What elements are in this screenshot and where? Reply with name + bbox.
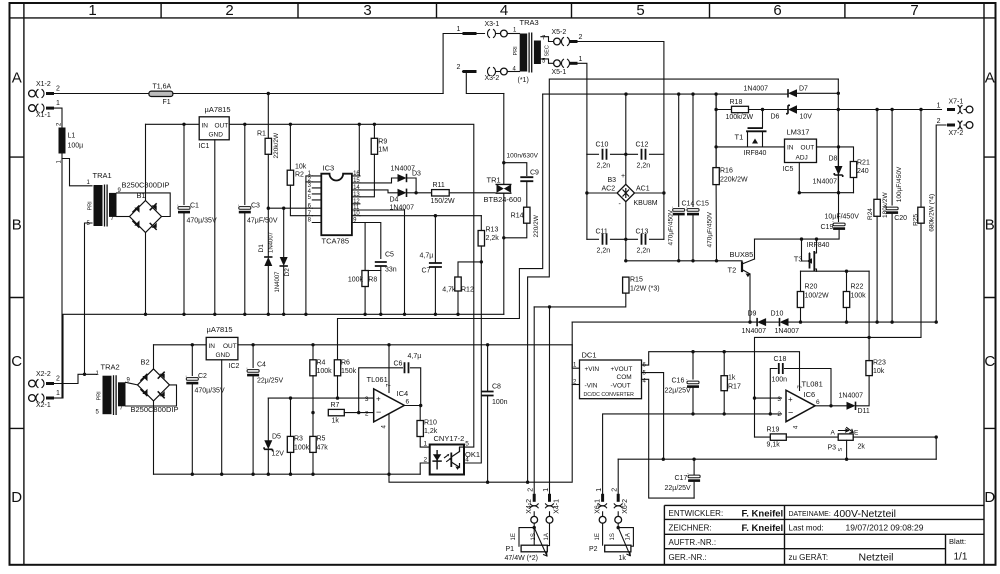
column tick dividers <box>161 3 845 18</box>
wire C8 bottom lead <box>487 396 489 483</box>
svg-text:47/4W (*2): 47/4W (*2) <box>505 555 538 562</box>
resistor R8 100k <box>362 271 368 287</box>
junction pin4 ground <box>387 473 390 476</box>
junction C14 <box>677 92 680 95</box>
wire photo collector to pin5 <box>460 447 465 451</box>
wire C8 top lead <box>487 345 489 391</box>
svg-text:R15: R15 <box>630 277 643 284</box>
svg-text:AUFTR.-NR.:: AUFTR.-NR.: <box>669 538 717 547</box>
junction P1 wiper <box>533 526 536 529</box>
wire ground rail of phase control circuit <box>63 314 504 398</box>
svg-text:100µ: 100µ <box>68 143 84 150</box>
junction P2 wiper <box>617 526 620 529</box>
svg-text:X7-2: X7-2 <box>949 130 964 137</box>
junction R4/R5/R7 <box>311 411 314 414</box>
svg-text:CNY17-2: CNY17-2 <box>434 434 465 443</box>
junction C1 top <box>182 123 185 126</box>
svg-text:T1,6A: T1,6A <box>153 84 172 91</box>
svg-text:IC4: IC4 <box>397 389 409 398</box>
wire D2 to ground rail <box>283 266 285 314</box>
svg-text:220k/2W: 220k/2W <box>720 177 748 184</box>
svg-text:D2: D2 <box>284 268 291 277</box>
wire caps rail left <box>587 153 599 155</box>
wire R23 top lead <box>868 337 870 360</box>
svg-text:R24: R24 <box>867 208 874 220</box>
wire C3 bottom to ground rail <box>244 214 246 315</box>
svg-text:PRI: PRI <box>97 391 103 401</box>
svg-text:1: 1 <box>88 2 96 19</box>
wire bridge box left side <box>586 154 588 239</box>
svg-text:6: 6 <box>773 2 781 19</box>
svg-text:R20: R20 <box>805 284 818 291</box>
junction AC2 <box>585 191 588 194</box>
svg-text:Last mod:: Last mod: <box>789 524 824 533</box>
wire raw rail to IC1 IN <box>146 123 200 125</box>
svg-text:SEC: SEC <box>545 45 551 56</box>
wire R7 node to R5 <box>312 413 314 437</box>
wire X2-2 to TRA2 pin1 <box>54 374 96 383</box>
wire HV minus rail to T2 base <box>626 260 742 262</box>
wire R7 to IC4 pin2 <box>344 412 373 414</box>
svg-text:2: 2 <box>56 86 60 93</box>
wire B3 to AC1 <box>635 192 664 194</box>
wire C15 top lead <box>692 94 694 206</box>
wire C6 left loop <box>359 368 403 413</box>
svg-text:TRA3: TRA3 <box>520 18 539 27</box>
wire IC4 pin4 down to ground <box>388 415 390 475</box>
junction R23 top <box>867 336 870 339</box>
junction sense vertical <box>935 435 938 438</box>
svg-text:1N4007: 1N4007 <box>813 179 838 186</box>
wire TR1 down to ground rail <box>503 193 505 314</box>
wire R2 bottom to IC3 pin7 <box>290 185 312 216</box>
voltage regulator IC5 LM317 <box>783 128 817 174</box>
wire caps rail right <box>650 153 664 155</box>
svg-text:1N4007: 1N4007 <box>742 328 767 335</box>
junction IC3 pin1 bus <box>304 313 307 316</box>
DC/DC converter DC1 <box>573 351 647 399</box>
wire R8 to ground <box>364 287 366 315</box>
junction D3/D4 <box>414 191 417 194</box>
svg-text:LM317: LM317 <box>787 128 810 137</box>
wire B3 plus rail to D7 <box>626 93 788 95</box>
wire R22 to ground rail <box>846 308 848 323</box>
IC3 left pin stubs <box>312 176 321 223</box>
svg-text:1k: 1k <box>619 555 627 562</box>
wire C4 bottom lead <box>252 377 254 475</box>
svg-text:R23: R23 <box>873 360 886 367</box>
junction snubber bottom <box>502 236 505 239</box>
svg-text:C20: C20 <box>894 215 907 222</box>
junction C20 <box>890 320 893 323</box>
wire riser to X3-1 <box>443 34 484 94</box>
junction C16 bottom <box>691 412 694 415</box>
junction R1/D1 <box>267 207 270 210</box>
wire R24 top lead <box>876 110 878 200</box>
svg-text:33n: 33n <box>385 267 397 274</box>
wire ground to minus rail <box>389 474 572 482</box>
wire C2 top lead <box>191 345 193 376</box>
junction R16 line T1 <box>714 145 717 148</box>
junction X7-2 line <box>935 320 938 323</box>
wire between D9 D10 <box>766 321 779 323</box>
svg-text:P3: P3 <box>828 445 837 452</box>
wire D2 top lead <box>283 208 285 257</box>
zener diode D8 1N4007 <box>835 166 843 175</box>
wire R13 to junction <box>480 246 482 262</box>
bridge rectifier B2 B250C800DIP <box>131 358 179 415</box>
wire C15 bottom lead <box>692 216 694 261</box>
wire rail drop to lower ground <box>571 322 573 481</box>
svg-text:D3: D3 <box>412 171 421 178</box>
svg-text:L1: L1 <box>68 133 76 140</box>
svg-text:1: 1 <box>424 441 428 448</box>
resistor R20 100/2W <box>797 292 803 308</box>
wire pin3 node to R19 <box>755 436 771 438</box>
wire IC1 OUT 15V rail and drop to OK1 pin5 <box>229 124 474 447</box>
wire B3 plus sense route to R6 <box>338 94 543 360</box>
svg-text:1N4007: 1N4007 <box>275 271 281 293</box>
wire lower ground rail <box>154 473 421 475</box>
wire L1 down to X2-1 node <box>61 154 63 399</box>
svg-text:TL061: TL061 <box>367 375 388 384</box>
wire C7 to ground <box>434 267 436 314</box>
svg-text:+: + <box>788 395 793 404</box>
wire X2-1 to ground riser <box>54 397 62 399</box>
wire R15 bottom to X4-2 feed <box>534 293 626 307</box>
junction R8 <box>363 313 366 316</box>
capacitor C6 4,7u <box>405 362 409 373</box>
junction T1 drain <box>761 108 764 111</box>
wire branch to TRA1 pin1 <box>62 159 92 186</box>
svg-text:IC2: IC2 <box>229 363 240 370</box>
svg-text:µA7815: µA7815 <box>205 105 231 114</box>
junction T2 emitter D9 <box>748 320 751 323</box>
junction C18 loop <box>769 412 772 415</box>
junction D8 top <box>837 145 840 148</box>
svg-text:BUX85: BUX85 <box>730 250 754 259</box>
svg-text:R3: R3 <box>294 436 303 443</box>
svg-text:X7-1: X7-1 <box>949 99 964 106</box>
svg-text:AC1: AC1 <box>636 186 650 193</box>
svg-text:1N4007: 1N4007 <box>775 328 800 335</box>
wire C18 left loop <box>770 369 777 414</box>
wire B1 plus up to 15V raw rail <box>145 124 147 200</box>
svg-text:2: 2 <box>457 64 461 71</box>
svg-text:4,7k: 4,7k <box>442 287 456 294</box>
junction R16 bottom <box>715 259 718 262</box>
connector X4-2 <box>526 488 538 523</box>
svg-text:10µF/450V: 10µF/450V <box>825 214 860 221</box>
wire DC1 -VOUT to C17 bottom <box>642 379 695 498</box>
wire B1 minus down <box>145 233 147 315</box>
wire P3 wiper down <box>846 440 848 459</box>
junction R18 left <box>714 108 717 111</box>
junction C18/output <box>829 404 832 407</box>
svg-text:D7: D7 <box>799 86 808 93</box>
wire D1 top lead <box>267 208 269 257</box>
svg-text:S: S <box>838 448 844 452</box>
svg-text:1/1: 1/1 <box>954 552 968 563</box>
wire C3 top lead <box>244 124 246 204</box>
diode D11 1N4007 <box>847 402 856 410</box>
svg-text:GND: GND <box>209 132 224 139</box>
junction IC1 GND <box>213 313 216 316</box>
svg-text:B2: B2 <box>141 358 150 367</box>
svg-text:TRA1: TRA1 <box>93 171 112 180</box>
connector X3-1 <box>457 21 508 38</box>
junction R12 ground <box>456 313 459 316</box>
wire to R3 <box>290 398 292 436</box>
wire B3 plus rail left segment <box>543 93 626 95</box>
junction C3 top <box>243 123 246 126</box>
svg-text:10k: 10k <box>873 368 885 375</box>
svg-text:TRA2: TRA2 <box>101 363 120 372</box>
overlap <box>715 94 717 109</box>
svg-text:3: 3 <box>363 2 371 19</box>
resistor R15 1/2W <box>623 277 629 293</box>
junction R5 <box>311 473 314 476</box>
wire D8 top lead <box>838 147 840 166</box>
junction R24 <box>875 108 878 111</box>
wire TRA2 pin9 to B2 left <box>126 382 138 385</box>
svg-text:AC2: AC2 <box>602 186 616 193</box>
svg-text:zu GERÄT:: zu GERÄT: <box>789 553 829 562</box>
junction R1 top on mains line <box>267 92 270 95</box>
svg-text:R7: R7 <box>331 402 340 409</box>
svg-text:D9: D9 <box>748 311 757 318</box>
wire C14 top lead <box>678 94 680 206</box>
junction R22 <box>845 320 848 323</box>
wire R4 bottom to R7 node <box>312 376 314 413</box>
wire B2 minus down to lower ground rail <box>153 401 155 474</box>
svg-text:R25: R25 <box>913 214 920 226</box>
svg-text:P1: P1 <box>506 546 515 553</box>
svg-text:X2-2: X2-2 <box>36 371 51 378</box>
wire C19 to T3 drain rail <box>755 230 840 239</box>
wire D1 to ground rail <box>267 266 269 314</box>
junction wiper rail <box>845 458 848 461</box>
svg-text:D: D <box>11 489 22 506</box>
junction R17 bottom <box>723 412 726 415</box>
svg-text:µA7815: µA7815 <box>207 325 233 334</box>
svg-text:100k: 100k <box>317 368 333 375</box>
wire X1-1 to inductor L1 <box>54 108 62 127</box>
svg-text:F. Kneifel: F. Kneifel <box>742 508 784 519</box>
junction R25 <box>919 108 922 111</box>
wire mains down to TR1 <box>503 94 505 185</box>
resistor R18 100k/2W <box>732 106 749 112</box>
wire sense common rail left of D9 <box>572 321 757 323</box>
svg-text:2,2n: 2,2n <box>637 248 651 255</box>
svg-text:C1: C1 <box>190 203 199 210</box>
svg-text:C: C <box>984 353 995 370</box>
wire IC1 GND down to ground rail <box>214 140 216 314</box>
connector X5-1 <box>552 56 583 76</box>
resistor R2 10k <box>287 170 293 185</box>
svg-text:KBU8M: KBU8M <box>634 200 658 207</box>
junction C8 bottom <box>486 481 489 484</box>
wire ADJ down <box>798 163 800 193</box>
junction T3 drain <box>815 237 818 240</box>
resistor R22 100k <box>843 292 849 308</box>
svg-text:4: 4 <box>465 457 469 464</box>
resistor R12 4,7k <box>455 277 461 291</box>
junction pin11 wire <box>403 313 406 316</box>
svg-text:5: 5 <box>636 2 644 19</box>
svg-text:R19: R19 <box>767 427 780 434</box>
wire LM317 OUT to R21 <box>817 147 854 162</box>
inductor L1 100u <box>59 128 66 154</box>
wire R11 to TR1 gate <box>449 192 495 194</box>
svg-text:D: D <box>984 489 995 506</box>
capacitor C9 100n/630V <box>520 177 533 181</box>
svg-text:IN: IN <box>202 123 209 130</box>
svg-text:C: C <box>11 353 22 370</box>
svg-text:1k: 1k <box>332 418 340 425</box>
op-amp IC6 TL081 <box>777 380 822 430</box>
wire DC1 +VOUT rail to IC6 pin7 <box>642 352 800 391</box>
svg-text:4,7µ: 4,7µ <box>420 253 434 260</box>
wire T3 source stub <box>816 270 818 272</box>
svg-text:470µ/35V: 470µ/35V <box>195 388 225 395</box>
svg-text:2,2n: 2,2n <box>597 248 611 255</box>
svg-text:1k: 1k <box>728 375 736 382</box>
connector X5-2 <box>552 29 583 46</box>
svg-text:DC/DC CONVERTER: DC/DC CONVERTER <box>584 392 635 398</box>
svg-text:T1: T1 <box>735 133 744 142</box>
wire line to R13 <box>480 216 482 231</box>
svg-text:2,2k: 2,2k <box>486 235 500 242</box>
svg-text:10: 10 <box>353 211 360 217</box>
junction X4-1 feed <box>548 305 551 308</box>
svg-text:R11: R11 <box>433 182 445 189</box>
capacitor C13 2,2n <box>642 234 646 245</box>
svg-text:R4: R4 <box>317 360 326 367</box>
svg-text:1N4007: 1N4007 <box>839 393 864 400</box>
svg-text:+VIN: +VIN <box>585 366 600 373</box>
junction R2 top <box>289 123 292 126</box>
junction C8 <box>486 343 489 346</box>
svg-text:100n: 100n <box>772 377 788 384</box>
svg-text:1: 1 <box>579 56 583 63</box>
svg-text:C8: C8 <box>492 384 501 391</box>
svg-text:100k/2W: 100k/2W <box>726 114 754 121</box>
svg-text:IRF840: IRF840 <box>807 242 830 249</box>
junction DC1 COM <box>662 458 665 461</box>
junction C6 loop <box>357 411 360 414</box>
capacitor C5 33n <box>375 262 387 266</box>
wire R12 to ground <box>457 291 459 314</box>
junction IC3 pin16 line <box>358 123 361 126</box>
svg-text:1N4007: 1N4007 <box>744 86 769 93</box>
wire R16 bottom lead <box>715 185 717 261</box>
svg-text:-VOUT: -VOUT <box>611 383 631 390</box>
junction D2 top <box>282 207 285 210</box>
svg-text:220k/2W: 220k/2W <box>273 132 280 159</box>
junction D7 riser <box>837 108 840 111</box>
svg-text:1: 1 <box>543 488 550 492</box>
wire junction down to OK1 pin4 <box>464 262 481 463</box>
svg-text:100/2W: 100/2W <box>805 293 830 300</box>
wire branch to C5 <box>365 223 381 259</box>
junction R3 <box>289 473 292 476</box>
wire IC3 pin2 to bus <box>306 181 312 183</box>
IC3 right pin stubs <box>352 176 360 223</box>
zener diode D6 10V <box>788 105 797 113</box>
wire X7-2 down sense line <box>936 125 946 322</box>
svg-text:PRI: PRI <box>88 201 94 211</box>
svg-text:R14: R14 <box>511 213 524 220</box>
wire TRA3 pin7 to X5-2 <box>541 37 554 42</box>
svg-text:400V-Netzteil: 400V-Netzteil <box>834 508 896 520</box>
wire C6 right loop <box>411 368 421 406</box>
svg-text:X2-1: X2-1 <box>36 402 51 409</box>
svg-text:1S: 1S <box>531 533 537 540</box>
junction IC2 GND <box>220 473 223 476</box>
svg-text:47µF/50V: 47µF/50V <box>247 218 278 225</box>
wire down to X4-2 <box>533 307 535 494</box>
wire junction to R12 <box>458 262 481 277</box>
svg-text:2,2n: 2,2n <box>637 163 651 170</box>
voltage regulator IC1 uA7815 <box>199 105 231 150</box>
wire AC2 to B3 <box>587 192 617 194</box>
junction R16/D7 line <box>714 92 717 95</box>
MOSFET T1 IRF840 <box>735 110 767 158</box>
svg-text:GER.-NR.:: GER.-NR.: <box>669 553 707 562</box>
wire R14 to TR1 line <box>504 223 527 238</box>
wire lower caps rail left <box>587 238 599 240</box>
wire 15V rail to DC1 <box>238 344 572 346</box>
svg-text:ADJ: ADJ <box>796 155 808 162</box>
wire P3 to sense line <box>853 436 936 438</box>
junction C7 <box>434 313 437 316</box>
svg-text:−: − <box>788 408 793 418</box>
svg-text:22µ/25V: 22µ/25V <box>665 388 692 395</box>
junction B1 minus <box>144 313 147 316</box>
svg-text:1: 1 <box>457 26 461 33</box>
junction ADJ <box>798 191 801 194</box>
svg-text:R8: R8 <box>368 277 377 284</box>
transformer TRA3 <box>513 18 551 84</box>
wire sense rail right of D10 <box>789 321 937 323</box>
svg-text:1E: 1E <box>511 533 517 540</box>
svg-text:+VOUT: +VOUT <box>611 366 633 373</box>
resistor R11 150/2W <box>432 190 450 196</box>
svg-text:2: 2 <box>56 376 60 383</box>
junction TRA1 pin5 feed <box>83 373 86 376</box>
wire DC1 COM down <box>642 373 664 460</box>
wire D4 cathode to R11 <box>407 192 432 194</box>
svg-text:P2: P2 <box>589 546 598 553</box>
resistor R10 1,2k <box>417 421 423 437</box>
svg-text:22µ/25V: 22µ/25V <box>257 378 284 385</box>
triac TR1 BTB24-600 <box>484 176 522 205</box>
svg-text:R13: R13 <box>486 227 499 234</box>
junction AC1 <box>662 191 665 194</box>
svg-text:1N4007: 1N4007 <box>269 231 275 253</box>
svg-text:12: 12 <box>353 199 360 205</box>
svg-text:C17: C17 <box>675 475 688 482</box>
wire X6-2 up to wiper rail <box>617 459 619 494</box>
wire D6 cathode long route to lower ground <box>528 79 839 482</box>
wire DC1 -VIN to minus rail <box>572 384 579 386</box>
svg-text:IN: IN <box>787 145 794 152</box>
svg-text:(*1): (*1) <box>518 77 529 84</box>
junction D6 route <box>526 481 529 484</box>
wire C20 bottom lead <box>891 214 893 322</box>
wire R3 to ground <box>290 452 292 474</box>
